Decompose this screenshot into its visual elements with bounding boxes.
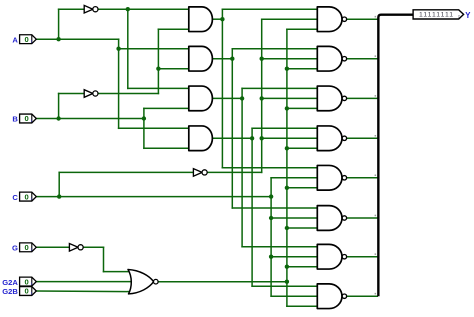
input pin B — [12, 114, 36, 124]
wire NAND U11 output to bus — [347, 256, 378, 258]
wire enable to NAND U9 bottom input — [287, 187, 317, 189]
wire NAND U8 output to bus — [347, 137, 378, 139]
wire C' vertical — [261, 19, 263, 172]
svg-text:G2B: G2B — [2, 287, 18, 296]
svg-text:C: C — [12, 193, 18, 202]
svg-text:1: 1 — [31, 197, 33, 201]
svg-text:B: B — [12, 115, 18, 124]
svg-text:0: 0 — [24, 277, 28, 286]
wire B from pin B — [36, 118, 144, 120]
wire A to AND G4 top input — [119, 127, 189, 129]
wire C to NAND U10 middle input — [271, 217, 317, 219]
wire C to NAND U12 middle input — [271, 295, 317, 297]
node tick row 6 — [375, 215, 377, 217]
node tick row 7 — [375, 253, 377, 255]
node tick row 2 — [375, 55, 377, 57]
wire A down — [118, 39, 120, 128]
svg-text:Y: Y — [465, 11, 471, 20]
svg-text:1: 1 — [31, 40, 33, 44]
AND gate G4 — [189, 126, 213, 151]
wire enable to NAND U8 bottom input — [287, 147, 317, 149]
wire G' down — [103, 247, 105, 271]
wire G2A to NOR U13 middle input — [36, 281, 136, 283]
wire AND G1 output — [212, 18, 222, 20]
junction A to G2 — [116, 47, 120, 51]
junction G1 output — [220, 17, 224, 21]
wire G' to NOR U13 top input — [104, 271, 135, 273]
junction on A' line — [126, 7, 130, 11]
wire C' to NAND U8 middle input — [262, 137, 318, 139]
input pin A — [12, 35, 36, 45]
wire into inverter U2 — [59, 93, 85, 95]
wire G2 to NAND U10 top input — [232, 207, 317, 209]
NAND gate U5 — [317, 7, 346, 32]
wire G4 to NAND U8 top input — [252, 127, 317, 129]
NOR gate U13 (enable) — [128, 270, 158, 294]
junction on B' line — [156, 67, 160, 71]
junction enable row 6 — [285, 226, 289, 230]
wire C to NAND U11 middle input — [271, 256, 317, 258]
wire NAND U9 output to bus — [347, 177, 378, 179]
wire AND G2 output — [212, 58, 232, 60]
wire enable to NAND U12 bottom input — [287, 305, 317, 307]
wire A to AND G2 top input — [119, 48, 189, 50]
node tick row 5 — [375, 175, 377, 177]
AND gate G2 — [189, 46, 213, 71]
junction C' row 2 — [260, 57, 264, 61]
svg-text:2: 2 — [458, 14, 460, 18]
wire C from pin C — [36, 196, 271, 198]
wire G2 output vertical — [231, 49, 233, 208]
input pin G2A — [2, 277, 36, 287]
junction enable row 7 — [285, 265, 289, 269]
wire G' from inverter U4 — [83, 246, 104, 248]
inverter U3 (NOT C) — [193, 169, 207, 177]
input pin C — [12, 192, 36, 202]
junction C row 6 — [269, 216, 273, 220]
wire NAND U10 output to bus — [347, 217, 378, 219]
wire NAND U5 output to bus — [347, 18, 378, 20]
junction G4 output — [250, 136, 254, 140]
svg-text:1: 1 — [31, 291, 33, 295]
wire G3 to NAND U7 top input — [242, 87, 317, 89]
wire B' up — [157, 29, 159, 93]
wire G2B to NOR U13 bottom input — [36, 290, 134, 293]
wire B' to AND G2 bottom input — [158, 68, 188, 70]
wire enable to NAND U6 bottom input — [287, 68, 317, 70]
NAND gate U10 — [317, 206, 346, 231]
wire A' down — [127, 9, 129, 88]
inverter U4 (NOT G) — [69, 244, 83, 252]
node tick row 3 — [375, 95, 377, 97]
wire G1 to NAND U5 top input — [222, 8, 317, 10]
wire enable to NAND U5 bottom input — [287, 28, 317, 30]
wire B up to inverter U2 — [58, 94, 60, 119]
inverter U2 (NOT B) — [84, 90, 98, 98]
wire NAND U12 output to bus — [347, 295, 378, 297]
8-bit output bus — [378, 15, 413, 297]
wire C' to NAND U5 middle input — [262, 18, 318, 20]
wire C to NAND U9 middle input — [271, 177, 317, 179]
NAND gate U9 — [317, 165, 346, 190]
junction B branch — [142, 116, 146, 120]
svg-text:1: 1 — [31, 119, 33, 123]
wire enable to NAND U11 bottom input — [287, 266, 317, 268]
wire A from pin A — [36, 38, 118, 40]
junction C' row 3 — [260, 96, 264, 100]
svg-text:0: 0 — [24, 35, 28, 44]
wire G3 to NAND U11 top input — [242, 246, 317, 248]
junction enable row 4 — [285, 146, 289, 150]
wire B' from U2 — [98, 93, 159, 95]
svg-text:11111111: 11111111 — [419, 12, 454, 19]
junction C branch — [269, 194, 273, 198]
junction enable feed — [285, 280, 289, 284]
junction enable row 3 — [285, 106, 289, 110]
input pin G2B — [2, 287, 36, 297]
junction on B line — [56, 116, 60, 120]
AND gate G3 — [189, 86, 213, 111]
wire G2 to NAND U6 top input — [232, 48, 317, 50]
node tick row 8 — [375, 293, 377, 295]
NAND gate U11 — [317, 244, 346, 269]
wire C' to NAND U6 middle input — [262, 58, 318, 60]
wire G4 to NAND U12 top input — [252, 285, 317, 287]
wire B to AND G3 bottom input — [144, 107, 189, 109]
wire NAND U7 output to bus — [347, 97, 378, 99]
junction enable row 2 — [285, 67, 289, 71]
wire enable to NAND U10 bottom input — [287, 227, 317, 229]
output pin Y — [413, 10, 471, 20]
wire enable from NOR U13 output — [158, 281, 287, 283]
NAND gate U8 — [317, 126, 346, 151]
junction C' row 4 — [260, 136, 264, 140]
wire C' from U3 — [207, 171, 261, 173]
junction G2 output — [230, 57, 234, 61]
input pin G — [12, 243, 36, 253]
AND gate G1 — [189, 7, 213, 32]
wire C vertical — [270, 178, 272, 296]
junction C row 7 — [269, 255, 273, 259]
junction G3 output — [240, 96, 244, 100]
NAND gate U6 — [317, 46, 346, 71]
svg-text:1: 1 — [31, 248, 33, 252]
wire G from pin G — [36, 246, 69, 248]
wire A' from U1 to AND G1 top input — [98, 8, 189, 10]
svg-text:1: 1 — [31, 282, 33, 286]
junction on A line — [56, 37, 60, 41]
wire AND G3 output — [212, 97, 242, 99]
wire enable to NAND U7 bottom input — [287, 107, 317, 109]
svg-text:0: 0 — [24, 287, 28, 296]
svg-text:G2A: G2A — [2, 278, 18, 287]
svg-text:0: 0 — [24, 243, 28, 252]
wire AND G4 output — [212, 137, 252, 139]
wire C up to inverter U3 — [58, 172, 60, 196]
junction enable row 5 — [285, 186, 289, 190]
svg-text:A: A — [12, 35, 18, 44]
wire enable vertical — [286, 29, 288, 306]
NAND gate U7 — [317, 86, 346, 111]
svg-text:G: G — [12, 244, 18, 253]
wire into inverter U3 — [59, 171, 193, 173]
wire A' to AND G3 top input — [128, 87, 189, 89]
wire C' to NAND U7 middle input — [262, 97, 318, 99]
NAND gate U12 — [317, 284, 346, 309]
wire into inverter U1 — [59, 8, 85, 10]
wire B vertical — [143, 108, 145, 148]
inverter U1 (NOT A) — [84, 5, 98, 13]
junction on C line — [57, 194, 61, 198]
wire A up to inverter U1 — [58, 9, 60, 39]
node tick row 4 — [375, 135, 377, 137]
wire B' to AND G1 bottom input — [158, 28, 188, 30]
node tick row 1 — [375, 16, 377, 18]
svg-text:0: 0 — [24, 114, 28, 123]
wire G4 output vertical — [251, 128, 253, 286]
wire NAND U6 output to bus — [347, 58, 378, 60]
wire B to AND G4 bottom input — [144, 147, 189, 149]
svg-text:0: 0 — [24, 192, 28, 201]
wire G3 output vertical — [241, 88, 243, 246]
wire G1 output vertical — [221, 9, 223, 168]
wire G1 to NAND U9 top input — [222, 167, 317, 169]
